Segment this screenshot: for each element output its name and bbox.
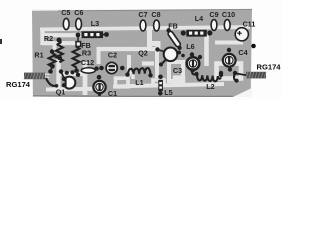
svg-text:RG174: RG174 (6, 80, 31, 89)
svg-text:RG174: RG174 (256, 62, 281, 71)
